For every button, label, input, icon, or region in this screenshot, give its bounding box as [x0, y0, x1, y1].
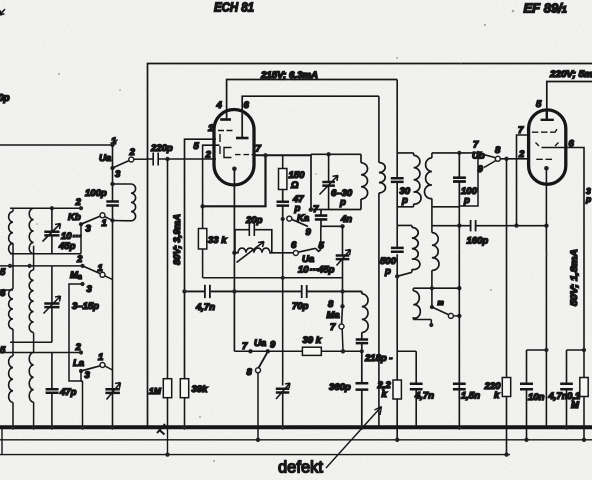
wire Ub row — [459, 152, 478, 154]
svg-text:8: 8 — [495, 145, 501, 156]
node pin7 a — [263, 153, 267, 157]
svg-text:9: 9 — [306, 227, 312, 238]
capacitor 4,7n g2 — [566, 350, 568, 427]
wire pin1 to 80V line — [185, 139, 217, 379]
svg-text:80V; 3,9mA: 80V; 3,9mA — [172, 214, 183, 265]
inductor L100 — [113, 184, 136, 221]
node grid1 junction — [165, 157, 169, 161]
ECH81 triode electrodes — [219, 134, 221, 154]
wire cathode down — [233, 169, 235, 351]
inductor det coil — [413, 291, 420, 319]
capacitor 47p series — [282, 190, 284, 220]
svg-text:1: 1 — [208, 123, 213, 134]
svg-text:p: p — [585, 194, 591, 204]
wire 220V rail — [547, 82, 592, 121]
svg-text:k: k — [382, 389, 388, 400]
svg-text:4,7n: 4,7n — [548, 391, 568, 402]
chassis tick — [157, 424, 165, 435]
node IF1 out — [395, 274, 399, 278]
outer box frame — [148, 64, 592, 428]
node loop left bottom — [309, 207, 313, 211]
svg-text:3: 3 — [85, 370, 91, 381]
loop 6-30p : frame — [311, 154, 361, 209]
EF89 g1 dashes — [536, 158, 552, 160]
inductor osc anode coil — [379, 163, 386, 193]
svg-text:7: 7 — [256, 144, 262, 155]
node loop bottom — [110, 218, 114, 222]
ECH81 heptode anode — [220, 118, 231, 121]
svg-text:6: 6 — [291, 240, 297, 251]
capacitor 360p — [361, 390, 363, 428]
trimmer main tuning — [107, 383, 121, 400]
svg-text:5: 5 — [194, 141, 200, 152]
switch U contact 1 — [110, 143, 114, 147]
svg-text:4n: 4n — [340, 214, 352, 225]
wire lower line 3 — [0, 454, 510, 456]
svg-text:50V; 1,8mA: 50V; 1,8mA — [569, 249, 580, 306]
wire left edge link — [1, 428, 3, 455]
capacitor 1,5n — [458, 316, 460, 428]
svg-text:p: p — [384, 266, 391, 277]
band module Kb : top wire — [10, 207, 81, 209]
switch L — [100, 363, 105, 368]
svg-text:5: 5 — [536, 99, 542, 110]
svg-text:3–15p: 3–15p — [72, 301, 99, 312]
wire pin7 EF89 — [517, 135, 529, 226]
EF89 g3 dashes — [532, 129, 557, 132]
node 4n out — [340, 224, 344, 228]
node g2 junction — [200, 204, 204, 208]
inductor IF1 prim — [414, 155, 421, 204]
wire contact5 up — [320, 226, 322, 248]
inductor IF osc sec — [361, 163, 368, 199]
svg-text:1,5n: 1,5n — [461, 391, 480, 402]
svg-text:p: p — [339, 197, 346, 208]
capacitor 218p — [361, 333, 363, 384]
svg-text:5: 5 — [0, 267, 6, 278]
switch U contact 3 — [110, 166, 114, 170]
svg-text:2: 2 — [76, 254, 83, 265]
node bus dots right — [457, 425, 461, 429]
inductor Ll1 — [9, 356, 13, 402]
switch det — [430, 305, 434, 309]
wire pin7 row — [254, 154, 311, 156]
svg-text:p: p — [463, 195, 470, 206]
resistor 0,1M — [583, 350, 585, 378]
inductor La2 — [29, 208, 33, 254]
svg-text:8: 8 — [328, 299, 334, 310]
svg-text:1: 1 — [102, 218, 107, 229]
trimmer 10-45p osc — [337, 226, 351, 306]
corner arrow top-left — [0, 9, 5, 15]
svg-text:5: 5 — [0, 345, 6, 356]
svg-text:7: 7 — [330, 322, 336, 333]
svg-text:3: 3 — [115, 169, 121, 180]
resistor 2,2k — [397, 350, 416, 352]
svg-text:Ua: Ua — [99, 153, 111, 164]
detector coil — [413, 288, 459, 324]
wire g-line horizontal — [203, 277, 343, 279]
wire M3 jog — [69, 284, 83, 381]
svg-text:Ua: Ua — [254, 338, 266, 349]
inductor L-osc variable — [232, 251, 236, 255]
wire osc coil to switch — [270, 252, 294, 254]
wire Ka chain down — [282, 219, 284, 386]
resistor 39k — [180, 379, 188, 398]
resistor 150ohm — [282, 155, 284, 168]
wire grid leak down — [167, 159, 169, 379]
svg-text:220V; 5mA: 220V; 5mA — [549, 69, 592, 80]
wire lower line 2 — [0, 439, 592, 441]
svg-text:1: 1 — [98, 352, 103, 363]
ECH81 cathode dot — [232, 167, 237, 172]
inductor L-osc2 — [362, 294, 368, 333]
IF transformer 2 secondary — [432, 207, 459, 307]
svg-text:1M: 1M — [149, 386, 162, 396]
wire osc anode line down — [378, 96, 380, 427]
capacitor 47p shunt — [51, 353, 53, 428]
EF89 anode — [541, 110, 554, 120]
svg-text:3: 3 — [86, 224, 92, 235]
tube EF89 envelope — [529, 110, 566, 184]
wire Kb 3 down — [80, 224, 82, 254]
svg-text:defekt: defekt — [278, 459, 323, 477]
inductor IF2 sec — [432, 233, 439, 271]
capacitor 10n — [526, 350, 528, 440]
wire M bottom — [10, 341, 52, 343]
wire main tuning line — [112, 145, 114, 428]
ground bus — [0, 425, 592, 429]
svg-text:7: 7 — [242, 341, 248, 352]
wire antenna Ua feed — [0, 144, 113, 146]
inductor La1 — [9, 212, 13, 254]
svg-text:9: 9 — [270, 340, 276, 351]
IF transformer 2 primary — [432, 153, 459, 207]
svg-text:2: 2 — [518, 149, 525, 160]
wire 4,7n row — [185, 291, 362, 293]
capacitor 70p — [302, 285, 307, 298]
wire Ub to grid — [500, 158, 528, 160]
svg-text:45p: 45p — [58, 241, 76, 252]
defekt arrow — [326, 407, 382, 469]
svg-text:m: m — [438, 300, 444, 307]
svg-text:3: 3 — [87, 284, 93, 295]
IF transformer 1 secondary — [397, 225, 412, 440]
wire AGC down to 220k — [506, 159, 508, 455]
trimmer 3-15p — [44, 266, 61, 342]
wire 160p row — [459, 225, 546, 227]
ECH81 cathode hook — [224, 148, 232, 158]
svg-text:EF 89/1: EF 89/1 — [524, 1, 567, 16]
ECH81 grid 7 dashes — [235, 154, 254, 156]
node det in — [457, 286, 461, 290]
IF transformer 1 primary — [397, 80, 413, 226]
tube ECH81 envelope — [214, 110, 254, 186]
svg-text:360p: 360p — [329, 382, 351, 393]
wire g2 out — [542, 148, 585, 351]
wire triode grid row — [234, 350, 361, 352]
svg-text:39k: 39k — [192, 384, 209, 395]
trimmer 6-30p — [326, 152, 330, 156]
svg-text:160p: 160p — [467, 236, 489, 247]
svg-text:4,7n: 4,7n — [414, 391, 434, 402]
svg-text:33 k: 33 k — [208, 235, 227, 246]
switch Kb — [100, 213, 105, 218]
ECH81 inner grid dashes — [218, 130, 233, 132]
wire heptode g2 link — [203, 155, 266, 206]
svg-text:100p: 100p — [85, 188, 107, 199]
node 4,7n junctions — [182, 289, 186, 293]
capacitor 100p IF2 — [453, 178, 466, 182]
trimmer 10-45p — [43, 208, 61, 254]
ECH81 triode anode — [236, 137, 249, 140]
svg-text:2: 2 — [75, 197, 82, 208]
inductor Ll2 — [29, 353, 33, 403]
svg-text:La: La — [73, 358, 84, 369]
svg-text:10⋯45p: 10⋯45p — [298, 265, 335, 276]
svg-text:4: 4 — [216, 100, 223, 111]
svg-text:Ua: Ua — [302, 254, 314, 265]
inductor Lm1 — [9, 289, 13, 329]
wire pin5 grid — [203, 145, 220, 206]
svg-text:70p: 70p — [292, 301, 309, 312]
wire Kb bottom — [10, 253, 81, 255]
svg-text:6: 6 — [244, 100, 250, 111]
svg-text:p: p — [401, 195, 408, 206]
band module M : top wire — [0, 265, 83, 267]
svg-text:7: 7 — [473, 140, 479, 151]
svg-text:0p: 0p — [0, 93, 10, 104]
svg-text:47p: 47p — [59, 387, 77, 398]
EF89 g2 marks — [536, 143, 559, 147]
svg-text:10n: 10n — [528, 392, 545, 403]
svg-text:8: 8 — [247, 367, 253, 378]
capacitor 4,7n — [205, 285, 210, 298]
resistor 33k — [198, 229, 206, 250]
svg-text:6: 6 — [569, 139, 575, 150]
wire triode anode rail — [242, 96, 379, 137]
switch M — [100, 272, 105, 277]
resistor 220k — [502, 378, 510, 397]
wires L bottoms — [13, 353, 34, 428]
capacitor 500p — [391, 248, 404, 252]
capacitor 30p — [391, 178, 404, 182]
EF89 cathode — [544, 166, 549, 171]
svg-text:Ma: Ma — [327, 310, 340, 321]
bus junction dots left — [11, 425, 15, 429]
svg-text:k: k — [494, 390, 500, 401]
wire cathode RC top link — [527, 349, 585, 351]
svg-text:7: 7 — [518, 125, 524, 136]
capacitor 100p AGC — [458, 153, 460, 428]
band module L : top wire — [0, 352, 81, 354]
inductor IF1 sec — [412, 227, 420, 269]
svg-text:M: M — [571, 400, 580, 411]
wire AGC long verticals handled above — [457, 223, 461, 227]
trimmer Cp bottom — [276, 383, 290, 428]
wire 215V rail — [227, 80, 398, 120]
svg-text:Ω: Ω — [290, 180, 299, 191]
resistor 39k horizontal — [302, 347, 321, 355]
svg-text:39 k: 39 k — [303, 335, 322, 346]
svg-text:220p: 220p — [150, 143, 173, 154]
node 47p bottom — [281, 217, 285, 221]
resistor 1M — [163, 379, 171, 398]
svg-text:Kb: Kb — [68, 212, 81, 223]
svg-text:2: 2 — [75, 342, 82, 353]
inductor IF2 prim — [425, 158, 432, 199]
inductor Lm2 — [29, 270, 33, 332]
node loop top — [110, 182, 114, 186]
svg-text:ECH 81: ECH 81 — [214, 0, 254, 15]
svg-text:4,7n: 4,7n — [195, 302, 215, 313]
capacitor 4,7n det — [415, 351, 417, 427]
capacitor 160p — [471, 220, 476, 231]
